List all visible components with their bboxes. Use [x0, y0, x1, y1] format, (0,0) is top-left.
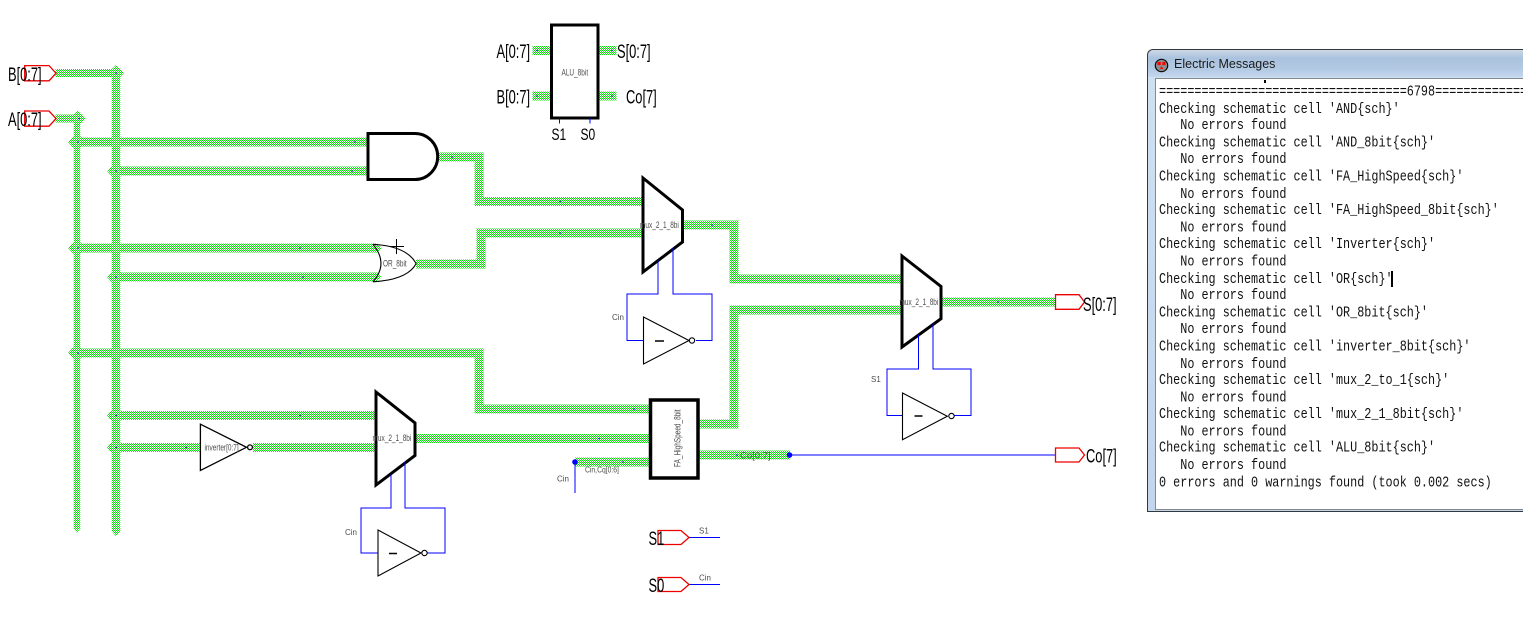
wire FA input1 [475, 405, 652, 414]
svg-text:B[0:7]: B[0:7] [8, 63, 42, 85]
inverter U2sel triangle [903, 393, 948, 440]
wire mux1 output horizontal [682, 221, 739, 230]
svg-text:mux_2_1_8bi: mux_2_1_8bi [900, 297, 939, 307]
wire A long vertical [475, 349, 484, 414]
wire ALU symbol S0 stub [589, 118, 591, 124]
svg-text:FA_HighSpeed_8bit: FA_HighSpeed_8bit [672, 409, 682, 467]
inverter U3sel triangle [378, 530, 421, 576]
svg-text:S0: S0 [649, 574, 665, 596]
wire A export horizontal [56, 115, 83, 123]
export tag A[0:7] [25, 111, 56, 126]
ALU_8bit instance box [552, 25, 599, 118]
svg-text:Cin: Cin [557, 475, 569, 484]
wire bus A tip [74, 529, 81, 534]
wire mux1 select left [627, 261, 658, 341]
wire AND output horizontal [438, 153, 484, 162]
cell center marker [389, 239, 404, 254]
export tag S0 [658, 578, 689, 592]
inverter U3sel bubble [422, 550, 427, 555]
wire mux2 input2 [730, 306, 904, 315]
wire OR input2 [112, 273, 378, 282]
wire mux3 select left [361, 474, 391, 553]
inverter[0:7] bubble [248, 445, 253, 450]
wire ALU symbol stub B [533, 92, 553, 101]
and gate AND_8bit [368, 134, 438, 180]
svg-text:Cin,Cq[0:6]: Cin,Cq[0:6] [585, 465, 619, 475]
wire S0 export stub [689, 584, 720, 586]
wire AND input1 [74, 138, 369, 147]
wire bus B vertical [112, 69, 121, 532]
wire mux2 output to S export [941, 298, 1056, 307]
wire FA output2 Co [698, 451, 790, 460]
mux U2 mux_2_1_8bit [902, 256, 941, 347]
svg-text:S1: S1 [649, 527, 665, 549]
junction bus A long [68, 348, 86, 359]
wire mux1 select right [673, 248, 712, 341]
svg-text:Cin: Cin [699, 574, 711, 583]
svg-text:A[0:7]: A[0:7] [8, 108, 42, 130]
wire inverter feed [112, 443, 202, 452]
pin dots [77, 50, 999, 463]
svg-text:Co[0:7]: Co[0:7] [740, 451, 771, 462]
node Cin dot [572, 459, 578, 465]
export tag B[0:7] [25, 66, 56, 81]
wire AND input2 [112, 167, 369, 176]
node Co junction dot [787, 452, 793, 458]
wire mux3 input1 [112, 411, 378, 420]
wire bus B tip [112, 531, 121, 536]
junction bus A AND [68, 137, 86, 148]
export tag S[0:7] [1056, 295, 1085, 310]
or gate OR_8bit [373, 244, 416, 281]
wire mux3 select right [405, 462, 445, 554]
wire ALU symbol S1 stub [559, 118, 561, 124]
inverter U2sel bubble [949, 413, 954, 418]
junction bus A OR [68, 243, 86, 254]
inverter U1sel bubble [689, 338, 694, 343]
wire inverter output to mux3 input2 [253, 443, 377, 452]
svg-text:Cin: Cin [612, 313, 624, 322]
mux U3 mux_2_1_8bit [376, 392, 415, 485]
wire OR output horizontal [416, 260, 486, 269]
junction bus B at export [108, 65, 124, 81]
svg-text:Co[7]: Co[7] [1086, 445, 1117, 467]
wire tip OR input2 [377, 273, 382, 282]
wire OR input1 [74, 244, 378, 253]
wire AND output vertical [475, 153, 484, 207]
inverter U1sel minus [655, 340, 664, 342]
svg-text:mux_2_1_8bi: mux_2_1_8bi [640, 220, 679, 230]
export tag S1 [658, 531, 689, 545]
wire OR output vertical [477, 229, 486, 269]
wire tip OR input1 [377, 244, 382, 253]
svg-text:A[0:7]: A[0:7] [497, 40, 531, 62]
svg-text:OR_8bit: OR_8bit [383, 258, 407, 268]
svg-text:S1: S1 [552, 126, 567, 144]
svg-text:S0: S0 [581, 126, 596, 144]
svg-text:Cin: Cin [345, 528, 357, 537]
wire mux2 input1 [730, 275, 904, 284]
wire Co to export [790, 454, 1056, 456]
wire bus A vertical [74, 114, 81, 529]
wire mux2 select right [933, 324, 971, 416]
FA_HighSpeed_8bit instance box [651, 400, 699, 478]
svg-text:inverter[0:7]: inverter[0:7] [205, 442, 239, 452]
junction bus B mux3 [107, 410, 125, 421]
svg-text:S[0:7]: S[0:7] [617, 40, 651, 62]
inverter U1sel triangle [644, 317, 690, 364]
wire FA output1 riser [730, 306, 739, 429]
mux U1 mux_2_1_8bit [643, 178, 683, 272]
wire Cin stub [574, 462, 576, 493]
junction bus B AND [107, 166, 125, 177]
wire mux1 input1 [475, 197, 645, 206]
junction bus B inverter [107, 442, 125, 453]
wire mux3 output to FA input2 [416, 434, 652, 443]
junction bus B OR [107, 272, 125, 283]
wire ALU symbol stub A [533, 46, 553, 55]
wire mux1 input2 [477, 229, 645, 238]
inverter U2sel minus [915, 415, 923, 417]
wire FA output1 horizontal [698, 420, 739, 429]
wire S1 export stub [689, 537, 720, 539]
svg-text:B[0:7]: B[0:7] [497, 86, 531, 108]
wire A long horizontal [74, 349, 484, 358]
inverter U3sel minus [389, 553, 397, 555]
inverter inverter[0:7] [200, 424, 246, 470]
svg-text:S1: S1 [699, 527, 709, 536]
wire ALU symbol stub Co [597, 92, 617, 101]
wire mux1 output vertical [730, 221, 739, 284]
svg-text:S1: S1 [871, 375, 881, 384]
wire ALU symbol stub S [597, 46, 617, 55]
wire mux2 select left [887, 335, 919, 416]
svg-text:Co[7]: Co[7] [626, 86, 657, 108]
svg-text:ALU_8bit: ALU_8bit [562, 67, 589, 77]
svg-text:S[0:7]: S[0:7] [1083, 293, 1117, 315]
wire B export horizontal [56, 69, 121, 77]
junction bus A at export [70, 111, 86, 127]
svg-text:mux_2_1_8bi: mux_2_1_8bi [373, 433, 412, 443]
export tag Co[7] [1056, 448, 1085, 462]
wire Cin to FA input3 [575, 458, 651, 467]
